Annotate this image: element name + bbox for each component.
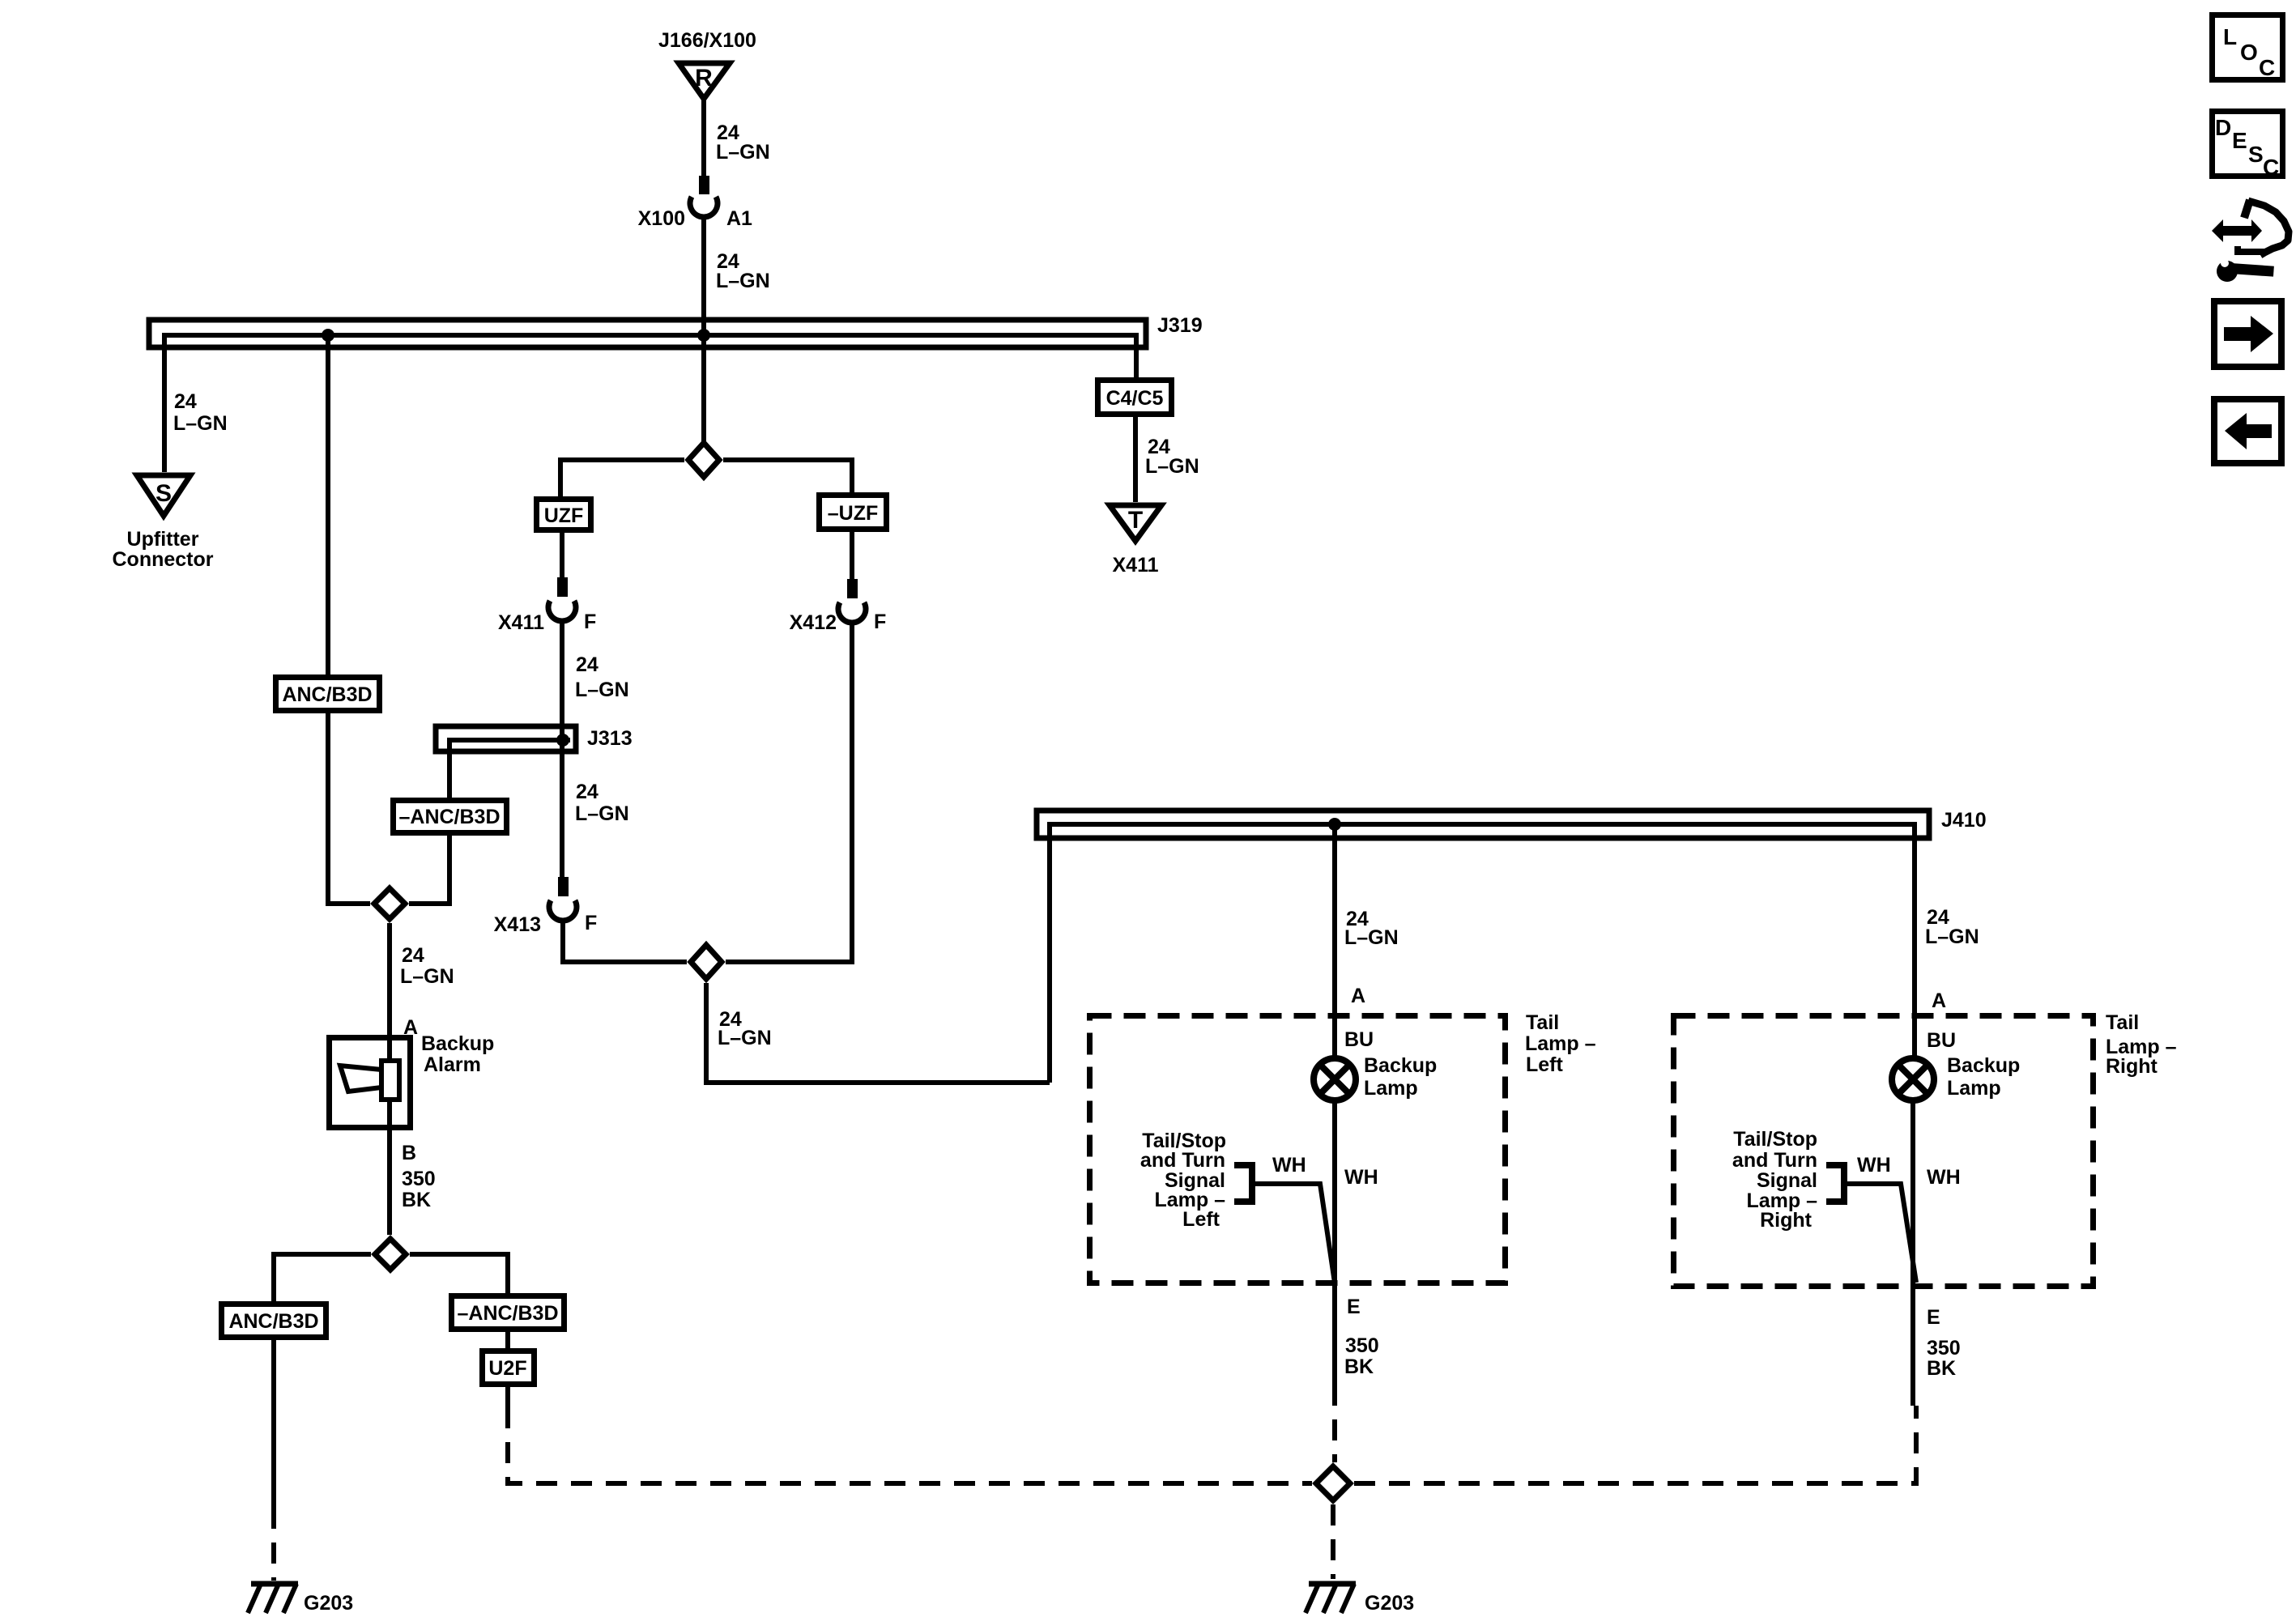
svg-text:X411: X411 xyxy=(1112,554,1158,577)
wire UZF to X411 xyxy=(560,533,564,577)
svg-text:Backup: Backup xyxy=(1947,1054,2020,1077)
harness bus J410 xyxy=(1037,809,1987,838)
svg-text:24: 24 xyxy=(576,781,598,803)
svg-text:BK: BK xyxy=(1344,1355,1374,1378)
splice diamond S2 xyxy=(691,945,722,979)
svg-text:S: S xyxy=(2248,142,2264,167)
wire label 24 L-GN (right lamp) xyxy=(1925,906,1979,948)
splice diamond S3 xyxy=(374,888,405,919)
svg-text:ANC/B3D: ANC/B3D xyxy=(282,683,372,706)
wire S4 to -ANC/B3D (lower) xyxy=(410,1254,508,1293)
svg-text:350: 350 xyxy=(1927,1337,1961,1360)
wire J319 to ANC/B3D xyxy=(326,335,330,674)
harness bus J313 xyxy=(436,726,633,751)
svg-text:L–GN: L–GN xyxy=(716,141,770,164)
svg-text:C4/C5: C4/C5 xyxy=(1106,387,1164,410)
svg-text:–ANC/B3D: –ANC/B3D xyxy=(398,806,500,828)
svg-text:and Turn: and Turn xyxy=(1140,1149,1225,1172)
wire S4 to ANC/B3D (lower) xyxy=(274,1254,371,1301)
wire E to S5 (dashed) xyxy=(1332,1385,1337,1462)
svg-text:Backup: Backup xyxy=(1364,1054,1437,1077)
bracket (left lamp internal) xyxy=(1234,1165,1252,1202)
cavity box UZF xyxy=(537,500,591,530)
svg-text:Right: Right xyxy=(1760,1209,1813,1232)
junction node on J410 xyxy=(1328,818,1341,831)
wire label 350 BK xyxy=(1344,1334,1379,1378)
cavity box -ANC/B3D (upper) xyxy=(394,801,507,833)
wire -ANC/B3D to U2F xyxy=(505,1332,510,1348)
wire ANC/B3D down (solid) xyxy=(271,1340,276,1508)
wire S5 to ground (dashed) xyxy=(1331,1504,1335,1579)
ground G203 (left) xyxy=(248,1584,353,1615)
wire label 24 L-GN xyxy=(400,944,454,988)
splice diamond S4 xyxy=(375,1239,406,1270)
svg-text:E: E xyxy=(1927,1306,1940,1329)
cavity box ANC/B3D (upper) xyxy=(276,678,380,711)
wire X411 through J313 to X413 xyxy=(560,621,564,877)
svg-text:24: 24 xyxy=(576,653,598,676)
svg-text:and Turn: and Turn xyxy=(1732,1149,1817,1172)
wire ANC/B3D to ground (dashed) xyxy=(271,1508,276,1581)
svg-text:J410: J410 xyxy=(1941,809,1987,832)
component label Tail/Stop and Turn Signal Lamp - Left xyxy=(1140,1130,1226,1231)
wire Backup Alarm B to splice diamond S4 xyxy=(387,1100,392,1235)
junction node on J313 xyxy=(556,734,569,747)
svg-text:Tail: Tail xyxy=(1526,1011,1559,1034)
svg-text:Lamp –: Lamp – xyxy=(1525,1032,1596,1055)
icon back arrow button xyxy=(2214,399,2281,463)
wire X412 down to splice diamond S2 xyxy=(726,623,852,962)
svg-text:J313: J313 xyxy=(587,727,633,750)
wire S5 to right lamp (dashed) xyxy=(1354,1406,1916,1483)
wire label 24 L-GN xyxy=(575,781,629,825)
wire C4/C5 to T xyxy=(1133,417,1138,502)
wire -UZF to X412 xyxy=(850,532,854,579)
svg-text:J166/X100: J166/X100 xyxy=(658,29,756,52)
connector symbol T (X411) xyxy=(1110,505,1161,577)
component label Tail/Stop and Turn Signal Lamp - Right xyxy=(1732,1128,1817,1232)
svg-text:BK: BK xyxy=(1927,1357,1956,1380)
bracket (right lamp internal) xyxy=(1826,1165,1844,1202)
svg-text:X100: X100 xyxy=(638,207,685,230)
svg-text:L–GN: L–GN xyxy=(718,1027,772,1049)
svg-text:Lamp: Lamp xyxy=(1947,1077,2001,1100)
wire label 350 BK xyxy=(402,1168,436,1211)
cavity box U2F xyxy=(483,1351,535,1385)
svg-text:24: 24 xyxy=(174,390,197,413)
wire J410 to left backup lamp xyxy=(1332,824,1337,1058)
junction node on J319 (left drop) xyxy=(322,329,334,342)
svg-text:BK: BK xyxy=(402,1189,431,1211)
icon next arrow button xyxy=(2214,301,2281,367)
wire J313 internal run to -ANC/B3D xyxy=(449,740,570,798)
cavity box C4/C5 xyxy=(1098,381,1172,415)
cavity box -ANC/B3D (lower) xyxy=(452,1296,564,1330)
svg-text:L–GN: L–GN xyxy=(400,965,454,988)
wire R to X100 xyxy=(701,97,706,176)
svg-text:WH: WH xyxy=(1344,1166,1378,1189)
svg-text:A1: A1 xyxy=(726,207,752,230)
dashed component box Tail Lamp - Right xyxy=(1674,1011,2177,1287)
wire S3 to Backup Alarm xyxy=(387,923,392,1061)
svg-text:S: S xyxy=(155,480,172,507)
svg-text:L–GN: L–GN xyxy=(575,802,629,825)
svg-text:R: R xyxy=(695,65,713,91)
svg-text:E: E xyxy=(2232,128,2247,153)
icon LOC button xyxy=(2213,15,2283,81)
svg-text:Right: Right xyxy=(2106,1055,2158,1078)
svg-text:Tail/Stop: Tail/Stop xyxy=(1733,1128,1817,1151)
svg-text:T: T xyxy=(1128,507,1143,534)
wire S2 bottom to J410 xyxy=(706,983,1050,1083)
icon hand with wrench xyxy=(2212,200,2289,282)
svg-text:BU: BU xyxy=(1927,1029,1956,1052)
svg-text:J319: J319 xyxy=(1157,314,1203,337)
svg-text:D: D xyxy=(2215,115,2231,140)
svg-text:L–GN: L–GN xyxy=(575,679,629,701)
svg-text:–ANC/B3D: –ANC/B3D xyxy=(457,1302,558,1325)
svg-text:G203: G203 xyxy=(1365,1592,1414,1615)
svg-text:A: A xyxy=(1932,989,1946,1012)
svg-text:L–GN: L–GN xyxy=(1344,926,1399,949)
svg-text:350: 350 xyxy=(1345,1334,1379,1357)
svg-text:Left: Left xyxy=(1182,1208,1220,1231)
svg-text:U2F: U2F xyxy=(488,1357,526,1380)
ground G203 (center) xyxy=(1306,1584,1414,1615)
wire J410 internal run xyxy=(1050,824,1915,1083)
svg-text:BU: BU xyxy=(1344,1028,1374,1051)
svg-text:X411: X411 xyxy=(498,611,544,634)
svg-text:L–GN: L–GN xyxy=(173,412,228,435)
harness bus J319 xyxy=(149,314,1203,347)
icon DESC button xyxy=(2213,112,2283,181)
in-line connector X411 terminal F xyxy=(498,577,596,634)
wire right lamp to E (solid) xyxy=(1910,1100,1915,1406)
backup lamp (right) xyxy=(1892,1054,2020,1100)
wire diamond to -UZF xyxy=(723,460,852,492)
splice diamond S1 xyxy=(688,443,719,477)
in-line connector X412 terminal F xyxy=(790,579,887,634)
wire -ANC/B3D to splice diamond S3 xyxy=(409,836,449,904)
in-line connector X100 terminal A1 xyxy=(638,176,752,230)
wire X100 to J319 and on to splice diamond xyxy=(701,217,706,447)
svg-text:Signal: Signal xyxy=(1757,1169,1817,1192)
svg-text:–UZF: –UZF xyxy=(828,502,879,525)
svg-text:Connector: Connector xyxy=(113,548,214,571)
wire U2F down (solid) xyxy=(505,1387,510,1407)
cavity box ANC/B3D (lower) xyxy=(222,1304,326,1338)
wire ANC/B3D to splice diamond S3 xyxy=(328,713,370,904)
svg-text:Tail: Tail xyxy=(2106,1011,2139,1034)
cavity box -UZF xyxy=(820,496,887,530)
svg-text:C: C xyxy=(2263,155,2279,180)
wire label 350 BK xyxy=(1927,1337,1961,1380)
svg-text:WH: WH xyxy=(1857,1154,1891,1177)
in-line connector X413 terminal F xyxy=(494,877,598,936)
svg-text:C: C xyxy=(2259,55,2275,80)
wire label 24 L-GN xyxy=(716,121,770,164)
wire label 24 L-GN xyxy=(716,250,770,292)
svg-text:F: F xyxy=(584,611,596,633)
svg-text:24: 24 xyxy=(402,944,424,967)
connector symbol S (Upfitter Connector) xyxy=(113,475,214,571)
svg-text:WH: WH xyxy=(1927,1166,1961,1189)
svg-text:UZF: UZF xyxy=(544,504,584,527)
wire X413 to splice diamond S2 xyxy=(563,921,687,962)
svg-text:Lamp: Lamp xyxy=(1364,1077,1418,1100)
wire label 24 L-GN xyxy=(1145,436,1199,478)
wire label 24 L-GN (left drop) xyxy=(173,390,228,435)
svg-text:F: F xyxy=(874,611,886,633)
svg-text:A: A xyxy=(1351,985,1365,1007)
svg-text:L–GN: L–GN xyxy=(1145,455,1199,478)
svg-text:X413: X413 xyxy=(494,913,541,936)
wire label 24 L-GN xyxy=(575,653,629,701)
wire U2F to splice diamond S5 (dashed) xyxy=(508,1407,1312,1483)
wire label 24 L-GN xyxy=(718,1008,772,1049)
svg-text:E: E xyxy=(1347,1296,1361,1318)
wire left lamp to E (solid) xyxy=(1332,1100,1337,1385)
backup alarm BA1 xyxy=(330,1032,495,1128)
wire label 24 L-GN (left lamp) xyxy=(1344,908,1399,949)
svg-text:B: B xyxy=(402,1142,416,1164)
splice diamond S5 xyxy=(1316,1466,1350,1500)
connector symbol R (J166/X100) xyxy=(658,29,756,99)
svg-text:X412: X412 xyxy=(790,611,837,634)
svg-text:Left: Left xyxy=(1526,1053,1564,1076)
backup lamp (left) xyxy=(1314,1054,1437,1100)
svg-text:O: O xyxy=(2240,40,2258,65)
svg-text:WH: WH xyxy=(1272,1154,1306,1177)
wire J319 internal run with drops to S and C4/C5 xyxy=(164,335,1136,472)
svg-text:L–GN: L–GN xyxy=(716,270,770,292)
svg-text:G203: G203 xyxy=(304,1592,353,1615)
wire diamond to UZF xyxy=(560,460,684,496)
svg-text:L–GN: L–GN xyxy=(1925,926,1979,948)
wire WH branch (left) xyxy=(1252,1184,1335,1283)
svg-text:Upfitter: Upfitter xyxy=(127,528,199,551)
svg-text:L: L xyxy=(2223,24,2237,49)
svg-text:Backup: Backup xyxy=(421,1032,494,1055)
svg-text:ANC/B3D: ANC/B3D xyxy=(228,1310,318,1333)
junction node on J319 (center) xyxy=(697,329,710,342)
svg-text:350: 350 xyxy=(402,1168,436,1190)
svg-text:Alarm: Alarm xyxy=(424,1053,481,1076)
svg-text:F: F xyxy=(585,912,597,934)
dashed component box Tail Lamp - Left xyxy=(1090,1011,1596,1283)
wire WH branch (right) xyxy=(1844,1184,1916,1283)
